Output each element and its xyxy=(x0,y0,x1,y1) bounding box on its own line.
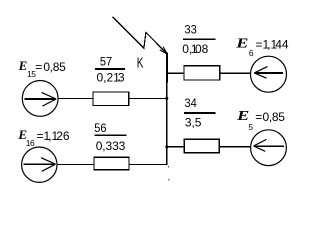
svg-text:=0,85: =0,85 xyxy=(255,110,285,124)
svg-text:5: 5 xyxy=(248,122,253,132)
svg-text:=0,85: =0,85 xyxy=(35,60,66,74)
svg-text:57: 57 xyxy=(100,56,112,68)
svg-text:=1,144: =1,144 xyxy=(256,37,289,51)
svg-text:34: 34 xyxy=(185,98,198,110)
svg-text:3,5: 3,5 xyxy=(185,115,202,129)
svg-text:K: K xyxy=(137,54,144,72)
svg-text:0,108: 0,108 xyxy=(182,42,208,56)
svg-text:0,213: 0,213 xyxy=(97,71,125,85)
svg-text:16: 16 xyxy=(26,138,35,148)
svg-text:33: 33 xyxy=(185,24,197,36)
svg-text:=1,126: =1,126 xyxy=(37,129,70,143)
svg-text:0,333: 0,333 xyxy=(96,139,126,153)
svg-text:56: 56 xyxy=(94,123,106,135)
svg-text:6: 6 xyxy=(249,48,254,58)
svg-text:E: E xyxy=(235,36,248,52)
